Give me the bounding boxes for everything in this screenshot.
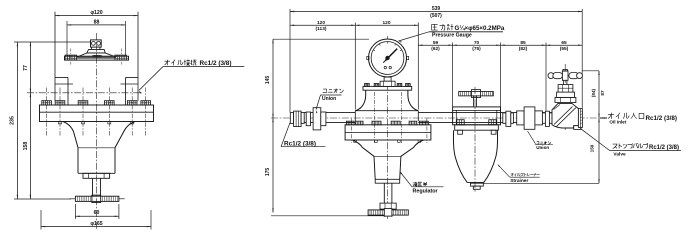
svg-text:Rc1/2 (3/8): Rc1/2 (3/8) [646, 115, 678, 122]
svg-text:77: 77 [23, 65, 29, 71]
svg-text:(55): (55) [560, 46, 569, 52]
svg-text:Union: Union [322, 96, 336, 102]
svg-text:Rc1/2 (3/8): Rc1/2 (3/8) [284, 141, 316, 148]
svg-text:158: 158 [23, 142, 29, 151]
svg-text:70: 70 [474, 40, 480, 46]
svg-text:φ165: φ165 [90, 221, 102, 227]
svg-text:Oil Inlet: Oil Inlet [609, 120, 626, 125]
svg-text:Valve: Valve [613, 151, 626, 157]
svg-text:59: 59 [433, 40, 439, 46]
svg-text:120: 120 [317, 20, 325, 26]
svg-text:Strainer: Strainer [510, 178, 528, 184]
svg-text:(75): (75) [472, 46, 481, 52]
svg-text:85: 85 [520, 40, 526, 46]
svg-text:175: 175 [265, 168, 271, 177]
svg-text:(507): (507) [430, 13, 442, 19]
svg-text:Rc1/2 (3/8): Rc1/2 (3/8) [200, 60, 232, 67]
svg-text:(82): (82) [519, 46, 528, 52]
svg-text:(113): (113) [316, 26, 327, 32]
svg-text:87: 87 [600, 90, 605, 96]
svg-text:Regulator: Regulator [413, 188, 439, 194]
svg-text:235: 235 [10, 116, 16, 125]
svg-text:Pressure Gauge: Pressure Gauge [432, 33, 472, 39]
svg-text:Union: Union [536, 145, 549, 150]
svg-text:150: 150 [590, 144, 595, 152]
svg-text:120: 120 [382, 20, 390, 26]
svg-text:145: 145 [265, 76, 271, 85]
svg-text:(62): (62) [431, 46, 440, 52]
svg-text:G¼×φ65×0.2MPa: G¼×φ65×0.2MPa [455, 25, 505, 32]
svg-text:65: 65 [561, 40, 567, 46]
svg-text:60: 60 [94, 210, 100, 216]
svg-text:(84): (84) [591, 88, 596, 97]
svg-text:Rc1/2 (3/8): Rc1/2 (3/8) [649, 145, 679, 151]
svg-text:539: 539 [432, 6, 441, 12]
